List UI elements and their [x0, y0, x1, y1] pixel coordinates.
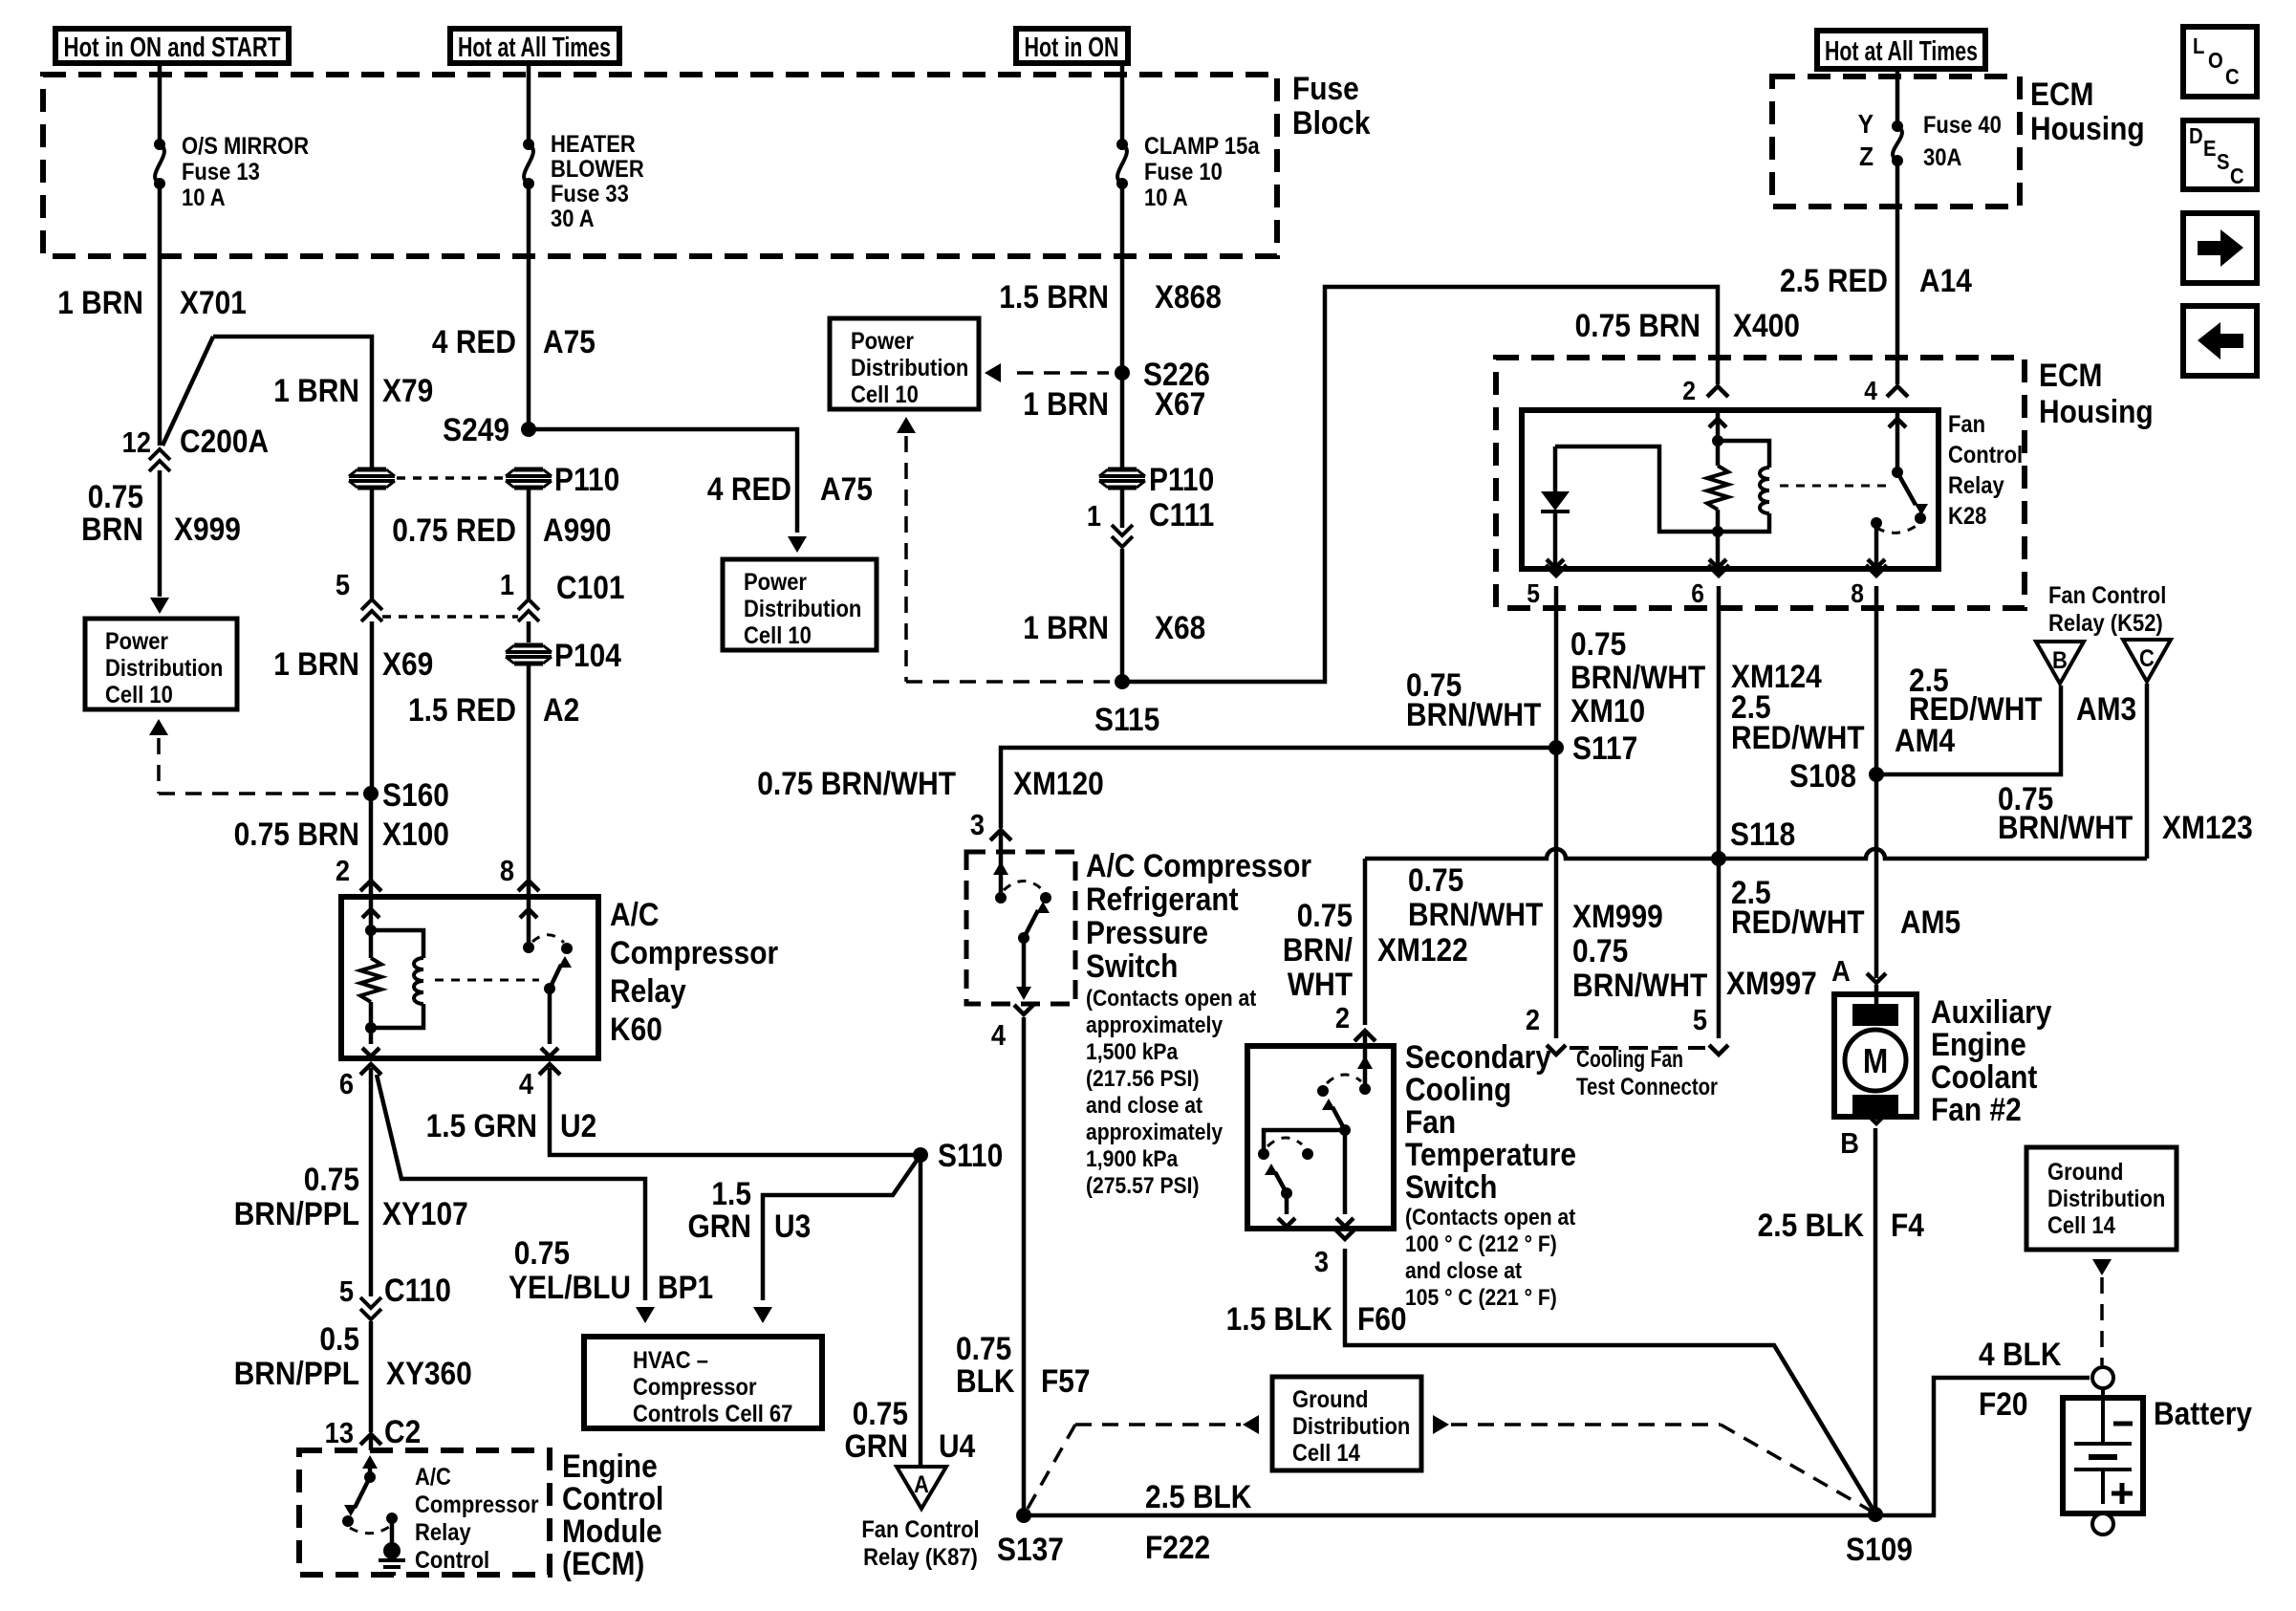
K28 switch contact arc dashed [1876, 525, 1917, 533]
svg-text:XM120: XM120 [1013, 765, 1104, 801]
wire BP1 (pin6 tap to HVAC) [377, 1075, 655, 1323]
wire AM5 (S108 to motor pin A) [1874, 774, 1879, 978]
svg-text:5: 5 [1527, 578, 1540, 609]
wire X67 (S226 to P110) [1120, 373, 1125, 468]
svg-text:X67: X67 [1155, 385, 1205, 422]
svg-text:A14: A14 [1919, 262, 1972, 298]
svg-text:30A: 30A [1923, 144, 1961, 171]
cooling fan test connector label [1576, 1046, 1718, 1100]
wire A990 (P110 to C101) [527, 490, 531, 599]
wire U2 (K60 pin 4 to S110) [550, 1068, 921, 1155]
wire pin6 to S118 [1717, 610, 1722, 859]
svg-text:0.75: 0.75 [956, 1330, 1011, 1366]
temp switch upper arm [1322, 1099, 1345, 1130]
wire X69 (C101 to S160) [370, 621, 375, 794]
svg-text:4 RED: 4 RED [707, 470, 791, 507]
splice S137 [997, 1508, 1064, 1567]
svg-text:Ground: Ground [1292, 1386, 1368, 1413]
svg-text:12: 12 [122, 426, 151, 459]
svg-text:X69: X69 [382, 645, 433, 682]
wire X868 (fuse 10 to S226) [1120, 188, 1125, 373]
svg-text:0.75: 0.75 [1570, 625, 1626, 662]
relay K28 label [1948, 411, 2023, 530]
splice S108 [1789, 757, 1884, 794]
svg-text:1.5 BRN: 1.5 BRN [999, 278, 1109, 315]
svg-text:1.5: 1.5 [711, 1175, 751, 1211]
wire X400 (S115 to relay K28 pin 2) [1122, 287, 1718, 682]
svg-text:Fan: Fan [1405, 1103, 1456, 1140]
wire from Hot at All Times to fuse 33 [527, 63, 531, 140]
motor box [1834, 994, 1917, 1117]
svg-text:Relay: Relay [610, 972, 686, 1009]
svg-text:Battery: Battery [2154, 1395, 2252, 1431]
battery internals [2074, 1388, 2133, 1504]
splice S226 [1115, 356, 1210, 392]
splice S117 [1549, 729, 1637, 766]
label 0.75 BRN/WHT XM120 [757, 765, 1104, 801]
svg-text:S137: S137 [997, 1531, 1064, 1567]
svg-text:BRN/WHT: BRN/WHT [1572, 967, 1708, 1003]
svg-text:C: C [2139, 645, 2155, 672]
svg-text:0.75: 0.75 [1572, 932, 1628, 969]
pressure switch contact arc dashed [1004, 882, 1043, 891]
svg-text:Fuse 10: Fuse 10 [1144, 159, 1223, 185]
K28 coil junction bottom [1712, 526, 1723, 537]
pressure switch note [1086, 986, 1257, 1199]
svg-text:1 BRN: 1 BRN [1023, 609, 1109, 645]
ECM housing label (top) [2030, 76, 2145, 146]
svg-text:1.5 RED: 1.5 RED [408, 691, 516, 728]
svg-text:2: 2 [1335, 1002, 1350, 1034]
fuse 13 label [182, 133, 309, 211]
wire XM10 (K28 pin 5 to S117) [1554, 610, 1559, 748]
svg-text:Distribution: Distribution [105, 655, 223, 682]
svg-text:P110: P110 [1149, 461, 1214, 497]
svg-text:5: 5 [1693, 1004, 1707, 1036]
svg-text:ECM: ECM [2039, 357, 2102, 393]
pressure switch label [1086, 847, 1311, 984]
pressure switch pin 4 [991, 1005, 1033, 1052]
fuse F10 (CLAMP 15a Fuse 10 10A) [1116, 139, 1128, 189]
wire F20 (S109 to battery) [1875, 1378, 2090, 1515]
K28 switch output wire [1868, 523, 1885, 568]
svg-text:BRN/WHT: BRN/WHT [1998, 809, 2134, 845]
svg-text:Fuse 33: Fuse 33 [551, 181, 629, 207]
K60 switch feed [520, 897, 537, 953]
pressure switch contact (pin3 side) [993, 852, 1008, 903]
splice S160 [363, 776, 449, 813]
right-arrow nav box [2183, 213, 2257, 283]
svg-text:4: 4 [991, 1019, 1007, 1052]
svg-text:2.5 BLK: 2.5 BLK [1758, 1207, 1864, 1243]
temp switch pin2 contact [1357, 1046, 1373, 1095]
svg-text:X400: X400 [1733, 307, 1800, 343]
temp switch lower arc dashed [1267, 1138, 1302, 1146]
ECM housing dashed boundary (top) [1772, 76, 2020, 207]
svg-text:Control: Control [1948, 442, 2023, 468]
dashed link C101 [382, 615, 518, 619]
motor pin A [1831, 955, 1886, 994]
K28 pin 8 exit [1851, 565, 1887, 610]
K28 coil junction top [1712, 435, 1723, 446]
power label box: Hot at All Times (left) [450, 29, 619, 63]
wire U3 (S110 to HVAC) [753, 1155, 921, 1323]
temp switch pin 2 entry [1354, 1031, 1375, 1046]
svg-text:Distribution: Distribution [744, 596, 861, 622]
svg-text:C101: C101 [556, 569, 625, 605]
fuse F13 (O/S MIRROR Fuse 13 10A) [154, 139, 165, 189]
svg-text:S117: S117 [1572, 729, 1637, 766]
label 1 BRN X79 [273, 372, 433, 408]
battery box [2063, 1398, 2143, 1513]
connector C2 pin 13 [325, 1413, 422, 1450]
svg-text:XM10: XM10 [1570, 692, 1645, 729]
svg-text:1 BRN: 1 BRN [273, 645, 359, 682]
splice S110 [913, 1137, 1003, 1173]
temp switch upper contact dot [1317, 1085, 1329, 1097]
svg-text:0.75 RED: 0.75 RED [392, 512, 516, 548]
engine control module label [562, 1448, 663, 1581]
svg-text:Cell 14: Cell 14 [1292, 1440, 1360, 1467]
K60 pin 6 exit [339, 1064, 381, 1100]
svg-text:Fan #2: Fan #2 [1931, 1091, 2022, 1127]
svg-text:1,500 kPa: 1,500 kPa [1086, 1039, 1179, 1065]
relay K60 box [341, 897, 598, 1058]
svg-text:Controls Cell 67: Controls Cell 67 [633, 1401, 792, 1427]
svg-text:C200A: C200A [180, 423, 269, 459]
svg-text:(217.56 PSI): (217.56 PSI) [1086, 1066, 1200, 1092]
label XM999 0.75 BRN/WHT (S118 to test pin5) [1572, 898, 1708, 1003]
svg-text:S249: S249 [443, 411, 509, 447]
svg-text:Hot in ON: Hot in ON [1025, 33, 1119, 63]
motor circle M [1845, 1030, 1906, 1091]
svg-text:4: 4 [1864, 376, 1877, 406]
wire X79 lower (P110 to C101) [370, 490, 375, 599]
connector C101 pin 1 [500, 569, 625, 621]
wire X68 (C111 to S115) [1120, 549, 1125, 682]
K28 pin 5 exit [1527, 565, 1567, 610]
svg-text:Power: Power [105, 628, 168, 655]
battery positive terminal [2092, 1513, 2113, 1535]
temp switch label [1405, 1038, 1576, 1205]
svg-text:BP1: BP1 [658, 1269, 713, 1305]
svg-text:Fuse 13: Fuse 13 [182, 159, 260, 185]
K60 mechanical link dashed [435, 979, 539, 982]
fan control relay K52 label [2048, 582, 2166, 637]
svg-text:Housing: Housing [2030, 110, 2145, 146]
svg-text:13: 13 [325, 1417, 354, 1449]
svg-text:A990: A990 [543, 512, 612, 548]
cooling fan test connector dashed outline [1570, 1046, 1705, 1050]
wire X79 (tap at C200A to P110) [162, 337, 372, 468]
svg-text:6: 6 [339, 1068, 354, 1100]
svg-text:Relay (K52): Relay (K52) [2048, 610, 2163, 637]
svg-text:Compressor: Compressor [610, 934, 778, 970]
power label box: Hot in ON and START [55, 29, 289, 63]
wire AM3 (S108 to fan control relay B) [1876, 686, 2061, 774]
svg-text:4: 4 [519, 1068, 534, 1100]
svg-text:P104: P104 [554, 637, 621, 673]
ECM relay control arc dashed [350, 1527, 389, 1534]
svg-text:XY107: XY107 [382, 1195, 468, 1231]
ECM housing dashed boundary (relay K28) [1496, 358, 2025, 608]
svg-text:F20: F20 [1979, 1385, 2028, 1422]
svg-text:Engine: Engine [1931, 1026, 2026, 1062]
svg-text:Cell 10: Cell 10 [744, 622, 812, 649]
pass-through grommet P110 (on A75) [506, 461, 619, 497]
dashed reference gnd box to S137 [1024, 1415, 1259, 1515]
wire XM122/XM123 horizontal with hops [1365, 849, 2147, 1025]
svg-text:S118: S118 [1730, 816, 1795, 852]
svg-text:BRN/: BRN/ [1283, 931, 1353, 968]
svg-text:S109: S109 [1846, 1531, 1913, 1567]
fuse block label [1292, 70, 1371, 141]
svg-text:XM999: XM999 [1572, 898, 1663, 934]
label 0.75 YEL/BLU BP1 [509, 1234, 713, 1305]
svg-text:Cell 14: Cell 14 [2047, 1212, 2115, 1239]
svg-text:2: 2 [1682, 376, 1696, 406]
svg-text:5: 5 [336, 569, 350, 601]
K60 switch output wire [541, 989, 558, 1056]
connector C111 pin 1 [1087, 496, 1214, 547]
dashed reference gnd box to S109 [1433, 1415, 1875, 1513]
svg-text:4 BLK: 4 BLK [1979, 1336, 2061, 1372]
svg-text:1: 1 [500, 569, 514, 601]
label 4 BLK F20 [1979, 1336, 2061, 1422]
relay K28 box [1522, 410, 1939, 569]
dashed reference from S160 to power distribution box [149, 719, 358, 794]
left-arrow nav box [2183, 306, 2257, 376]
svg-text:XY360: XY360 [386, 1355, 472, 1391]
svg-text:Cooling Fan: Cooling Fan [1576, 1046, 1683, 1073]
svg-text:XM123: XM123 [2162, 809, 2253, 845]
svg-text:105 ° C (221 ° F): 105 ° C (221 ° F) [1405, 1285, 1557, 1311]
svg-text:BRN/WHT: BRN/WHT [1406, 696, 1542, 732]
label 2.5 RED/WHT AM5 [1731, 874, 1960, 940]
label 5 (C101 left) [336, 569, 350, 601]
svg-text:XM997: XM997 [1726, 965, 1817, 1001]
svg-text:BLOWER: BLOWER [551, 156, 644, 183]
svg-text:B: B [1840, 1127, 1859, 1160]
dashed reference S115 to power distribution box [897, 417, 1111, 682]
K60 coil [371, 930, 423, 1028]
svg-text:M: M [1863, 1042, 1888, 1080]
HVAC compressor controls box [584, 1337, 822, 1428]
label 1 BRN X701 [57, 284, 247, 320]
label 0.75 BRN/WHT (left of XM10) [1406, 666, 1542, 732]
label 2.5 BLK F4 [1758, 1207, 1924, 1243]
wire from Hot at All Times to fuse 40 [1895, 69, 1900, 121]
svg-text:Cooling: Cooling [1405, 1071, 1511, 1107]
engine control module dashed box [299, 1450, 550, 1575]
svg-text:0.75: 0.75 [514, 1234, 570, 1271]
label 0.75 BRN X400 [1575, 307, 1800, 343]
svg-text:and close at: and close at [1086, 1093, 1202, 1119]
svg-text:Module: Module [562, 1513, 662, 1549]
splice S249 [443, 411, 536, 447]
svg-text:Y: Y [1858, 109, 1874, 140]
fuse F33 (HEATER BLOWER Fuse 33 30A) [523, 139, 534, 189]
label AM4 [1895, 722, 1955, 758]
motor label [1931, 993, 2052, 1127]
label 12 C200A [122, 423, 269, 459]
svg-text:Power: Power [851, 328, 914, 355]
fuse F40 (Fuse 40 30A) pins Y Z [1858, 109, 2002, 172]
K60 resistor [360, 930, 381, 1028]
svg-text:1 BRN: 1 BRN [57, 284, 143, 320]
svg-text:S108: S108 [1789, 757, 1856, 794]
svg-text:Switch: Switch [1086, 947, 1178, 984]
svg-text:8: 8 [1851, 578, 1864, 609]
wire A2 (P104 to K60 pin 8) [527, 665, 531, 881]
fuse 33 label [551, 131, 644, 232]
svg-text:C110: C110 [384, 1272, 451, 1308]
svg-text:3: 3 [970, 809, 985, 841]
svg-text:X68: X68 [1155, 609, 1205, 645]
K60 coil junction top [365, 925, 377, 936]
power distribution cell 10 box (upper middle) [830, 318, 979, 409]
ECM relay control switch [342, 1455, 378, 1527]
svg-text:approximately: approximately [1086, 1120, 1224, 1145]
temp switch pin3 exit wire [1336, 1130, 1354, 1227]
temp switch lower contact dot [1258, 1148, 1269, 1160]
svg-text:A/C: A/C [415, 1464, 451, 1491]
label 1.5 BLK F60 [1226, 1300, 1407, 1337]
label 0.75 BRN/ WHT 2 (XM122 left) [1283, 897, 1354, 1034]
svg-text:X868: X868 [1155, 278, 1222, 315]
svg-text:C2: C2 [384, 1413, 421, 1449]
svg-text:Temperature: Temperature [1405, 1136, 1576, 1172]
connector C110 pin 5 [339, 1272, 451, 1319]
dashed reference S226 to power distribution box [985, 363, 1109, 382]
svg-text:F222: F222 [1145, 1529, 1210, 1565]
motor brush top [1852, 1004, 1898, 1026]
A/C refrigerant pressure switch dashed box [966, 852, 1075, 1004]
label 4 RED A75 [432, 323, 596, 359]
motor brush bottom [1852, 1095, 1898, 1117]
wire pin8 into K60 [527, 882, 531, 899]
svg-text:(Contacts open at: (Contacts open at [1086, 986, 1257, 1012]
svg-text:0.75 BRN: 0.75 BRN [234, 816, 359, 852]
power label box: Hot in ON [1016, 29, 1128, 63]
svg-text:100 ° C (212 ° F): 100 ° C (212 ° F) [1405, 1231, 1557, 1257]
label 1 BRN X67 [1023, 385, 1205, 422]
K28 diode branch wire [1555, 446, 1718, 532]
svg-text:S110: S110 [938, 1137, 1003, 1173]
svg-text:(Contacts open at: (Contacts open at [1405, 1205, 1576, 1230]
wire from Hot in ON and START to fuse 13 [158, 63, 162, 140]
label 0.5 BRN/PPL XY360 [234, 1320, 472, 1391]
fan control relay K87 label [861, 1516, 979, 1571]
svg-text:Housing: Housing [2039, 393, 2154, 429]
power label box: Hot at All Times (right) [1817, 31, 1985, 69]
svg-text:U3: U3 [774, 1208, 811, 1244]
svg-text:B: B [2052, 647, 2068, 674]
svg-text:K60: K60 [610, 1011, 662, 1047]
svg-text:AM3: AM3 [2076, 690, 2136, 727]
svg-text:RED/WHT: RED/WHT [1909, 690, 2043, 727]
ECM relay control contact [386, 1513, 398, 1544]
svg-text:0.75 BRN/WHT: 0.75 BRN/WHT [757, 765, 956, 801]
svg-text:Distribution: Distribution [851, 355, 968, 381]
splice S118 [1711, 816, 1795, 866]
label 0.75 BRN/PPL XY107 [234, 1161, 468, 1231]
ground distribution cell 14 box (right) [2026, 1147, 2177, 1250]
temp switch note [1405, 1205, 1576, 1311]
svg-text:Secondary: Secondary [1405, 1038, 1551, 1075]
svg-text:C: C [2225, 64, 2240, 90]
wire A75 branch (S249 to power distribution) [529, 429, 807, 553]
svg-text:Fuse: Fuse [1292, 70, 1359, 106]
svg-text:0.75: 0.75 [304, 1161, 359, 1197]
svg-text:1 BRN: 1 BRN [1023, 385, 1109, 422]
fuse block dashed boundary [43, 75, 1277, 256]
svg-text:HEATER: HEATER [551, 131, 636, 158]
svg-text:Auxiliary: Auxiliary [1931, 993, 2052, 1030]
test connector pin 5 [1693, 1004, 1728, 1055]
svg-text:5: 5 [339, 1275, 354, 1308]
svg-text:1.5 BLK: 1.5 BLK [1226, 1300, 1332, 1337]
wire (P110 to C111) [1120, 490, 1125, 528]
svg-text:0.75: 0.75 [1297, 897, 1353, 933]
svg-text:S: S [2217, 149, 2230, 175]
svg-text:Block: Block [1292, 104, 1371, 141]
ECM housing label (relay K28) [2039, 357, 2154, 429]
wire XM124 (K28 pin 8 to S108) [1874, 610, 1879, 774]
svg-text:BRN/PPL: BRN/PPL [234, 1355, 359, 1391]
svg-text:4 RED: 4 RED [432, 323, 516, 359]
wire A14 (fuse 40 to K28 pin 4) [1895, 165, 1900, 384]
svg-text:AM5: AM5 [1900, 903, 1960, 940]
svg-text:Distribution: Distribution [2047, 1186, 2165, 1212]
svg-text:1.5 GRN: 1.5 GRN [426, 1107, 537, 1143]
svg-text:Hot at All Times: Hot at All Times [1825, 36, 1978, 67]
wire A75 (fuse 33 to S249) [527, 188, 531, 429]
secondary cooling fan temperature switch box [1247, 1046, 1394, 1229]
svg-text:10 A: 10 A [182, 185, 226, 211]
wire pin2 into K60 [369, 882, 374, 899]
svg-text:S115: S115 [1094, 701, 1159, 737]
DESC nav box [2183, 120, 2257, 189]
label 0.75 BRN X100 [234, 816, 449, 852]
power distribution cell 10 box (left) [85, 619, 237, 709]
pass-through grommet P110 (on X67) [1099, 461, 1214, 497]
pass-through grommet P104 [506, 637, 621, 673]
svg-text:0.5: 0.5 [319, 1320, 359, 1357]
svg-text:AM4: AM4 [1895, 722, 1955, 758]
LOC nav box [2183, 27, 2257, 97]
test connector pin 2 [1526, 1004, 1566, 1055]
label 0.75 BRN X999 [81, 478, 241, 547]
svg-text:Compressor: Compressor [415, 1491, 539, 1518]
label 2.5 BLK F222 [1145, 1478, 1251, 1565]
label 1.5 RED A2 [408, 691, 579, 728]
svg-text:8: 8 [500, 855, 514, 887]
svg-text:ECM: ECM [2030, 76, 2093, 112]
svg-text:1: 1 [1087, 500, 1101, 533]
svg-text:K28: K28 [1948, 503, 1986, 530]
svg-text:0.75: 0.75 [88, 478, 143, 514]
label XM124 2.5 RED/WHT [1731, 658, 1865, 755]
K28 pin 2 entry [1682, 376, 1728, 439]
svg-text:U2: U2 [560, 1107, 596, 1143]
K28 diode exit arrow [1547, 552, 1564, 568]
ground symbol (ECM) [379, 1542, 405, 1574]
svg-text:HVAC –: HVAC – [633, 1347, 708, 1374]
svg-text:0.75 BRN: 0.75 BRN [1575, 307, 1700, 343]
label 1.5 BRN X868 [999, 278, 1222, 315]
connector C101 pin 5 [361, 599, 382, 621]
